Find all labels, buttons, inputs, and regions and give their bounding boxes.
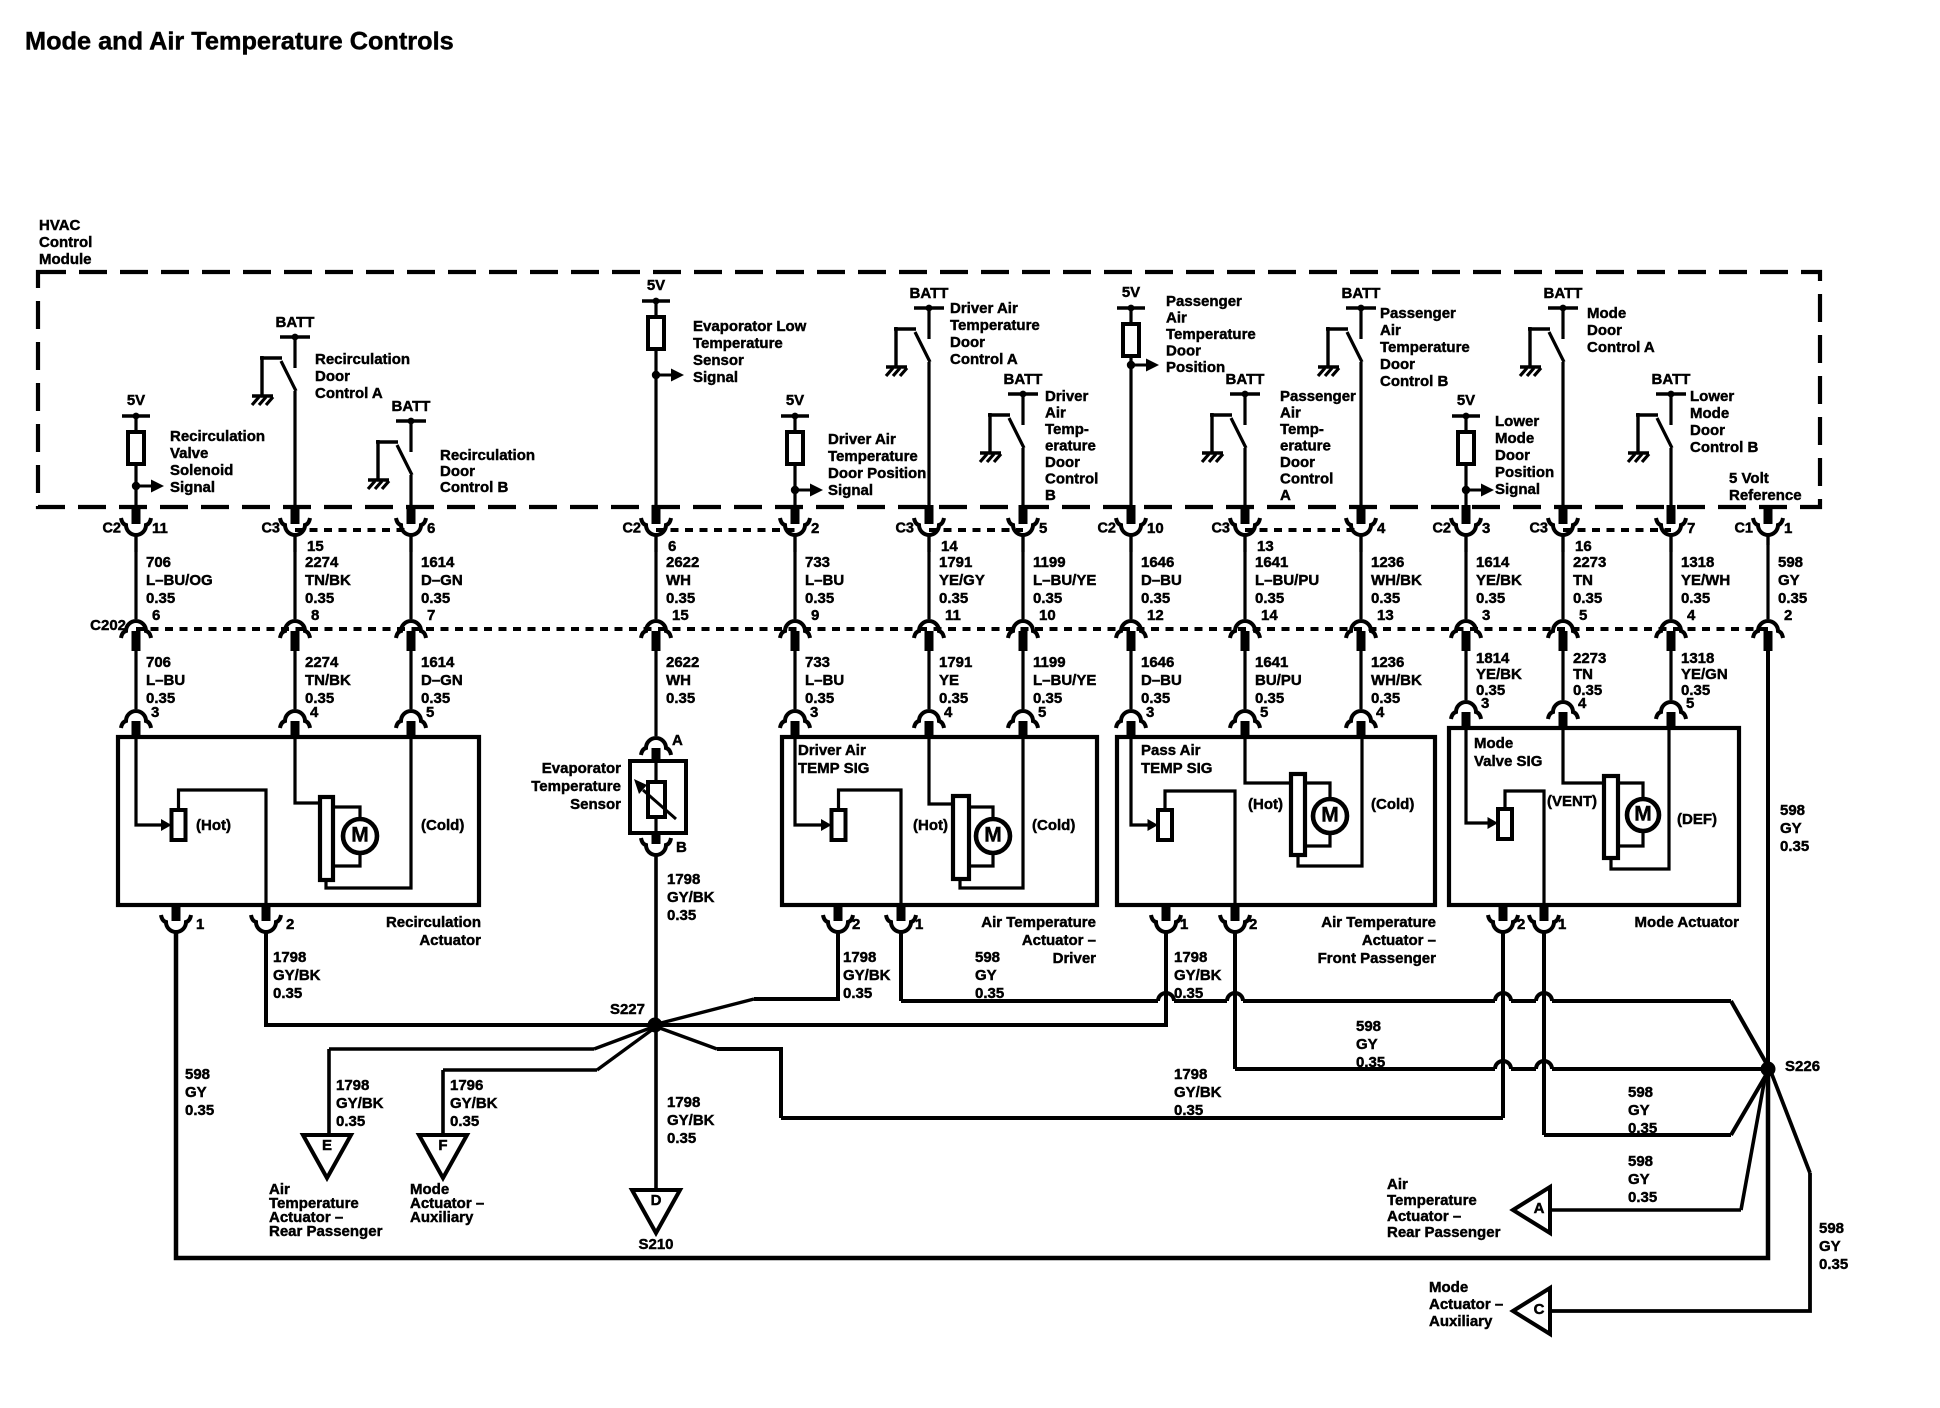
- svg-text:Control A: Control A: [1587, 339, 1655, 356]
- wire 1236 WH/BK (module to C202): [1359, 536, 1362, 619]
- svg-text:598: 598: [1356, 1018, 1381, 1035]
- svg-text:C1: C1: [1734, 521, 1753, 537]
- svg-text:Evaporator: Evaporator: [542, 760, 621, 777]
- switch blade - Passenger Air Temperature Door Control A: [1231, 418, 1246, 448]
- triangle connector A: [1513, 1187, 1550, 1233]
- svg-text:BATT: BATT: [1004, 371, 1043, 388]
- svg-text:1798: 1798: [667, 871, 700, 888]
- svg-text:Passenger: Passenger: [1166, 293, 1242, 310]
- thermistor arrow: [643, 790, 676, 819]
- svg-text:GY/BK: GY/BK: [667, 889, 715, 906]
- ground - Driver Air Temperature Door Control B: [980, 451, 1001, 454]
- svg-text:10: 10: [1147, 520, 1164, 537]
- connector pin C2 10 (module row): [1127, 505, 1136, 524]
- svg-text:1614: 1614: [1476, 554, 1510, 571]
- wire - BATT feed - Lower Mode Door Control B: [1669, 394, 1672, 425]
- actuator connector pin 4: [1548, 702, 1578, 719]
- svg-text:2: 2: [811, 520, 819, 537]
- C202 pin 4: [1656, 621, 1686, 638]
- svg-text:0.35: 0.35: [146, 590, 175, 607]
- wire 2273 TN (module to C202): [1561, 536, 1564, 619]
- svg-text:BATT: BATT: [392, 398, 431, 415]
- resistor R4 - passenger door position pullup: [1123, 324, 1139, 356]
- pass motor M: [1313, 799, 1347, 833]
- svg-text:YE: YE: [939, 672, 959, 689]
- connector pin C3 16 (module row): [1559, 505, 1568, 524]
- actuator connector pin 3: [780, 711, 810, 728]
- connector pin 4 (module row): [1357, 505, 1366, 524]
- wire - BATT feed - Passenger Air Temperature Door Control B: [1359, 308, 1362, 339]
- svg-text:Reference: Reference: [1729, 487, 1802, 504]
- svg-text:D–BU: D–BU: [1141, 672, 1182, 689]
- actuator connector pin 5: [1656, 702, 1686, 719]
- svg-text:D: D: [651, 1192, 662, 1209]
- svg-text:0.35: 0.35: [336, 1113, 365, 1130]
- signal tap arrow - Passenger Air Temperature Door Position: [1127, 361, 1135, 369]
- svg-text:C3: C3: [1211, 521, 1230, 537]
- svg-text:YE/BK: YE/BK: [1476, 666, 1522, 683]
- svg-text:598: 598: [975, 949, 1000, 966]
- svg-text:598: 598: [185, 1066, 210, 1083]
- svg-text:Temperature: Temperature: [828, 448, 918, 465]
- svg-text:Door: Door: [1690, 422, 1725, 439]
- svg-text:Door: Door: [950, 334, 985, 351]
- svg-text:WH: WH: [666, 672, 691, 689]
- svg-text:Temperature: Temperature: [531, 778, 621, 795]
- resistor R1 - recirculation valve solenoid pullup: [128, 432, 144, 464]
- svg-text:3: 3: [1482, 607, 1490, 624]
- wire 1614 D–GN (C202 to actuator pin 5): [409, 651, 412, 709]
- wire - signal node to connector C2-6: [654, 375, 657, 507]
- svg-text:14: 14: [1261, 607, 1278, 624]
- svg-text:Control A: Control A: [315, 385, 383, 402]
- switch blade - Passenger Air Temperature Door Control B: [1347, 332, 1362, 362]
- svg-text:1: 1: [1180, 916, 1188, 933]
- svg-text:Temperature: Temperature: [1387, 1192, 1477, 1209]
- svg-text:L–BU/YE: L–BU/YE: [1033, 672, 1096, 689]
- svg-text:Valve SIG: Valve SIG: [1474, 753, 1542, 770]
- wire - 5V to resistor R2: [654, 301, 657, 317]
- svg-text:GY/BK: GY/BK: [273, 967, 321, 984]
- wire 706 L–BU/OG (module to C202): [134, 536, 137, 619]
- connector pin 6 (module row): [407, 505, 416, 524]
- svg-text:7: 7: [1687, 520, 1695, 537]
- svg-text:Control: Control: [39, 234, 92, 251]
- triangle connector E: [303, 1135, 351, 1178]
- svg-text:0.35: 0.35: [1033, 590, 1062, 607]
- C202 pin 12: [1116, 621, 1146, 638]
- svg-text:0.35: 0.35: [450, 1113, 479, 1130]
- svg-text:10: 10: [1039, 607, 1056, 624]
- svg-text:(Cold): (Cold): [1032, 817, 1075, 834]
- svg-text:Temperature: Temperature: [693, 335, 783, 352]
- svg-text:2622: 2622: [666, 654, 699, 671]
- svg-text:L–BU: L–BU: [805, 572, 844, 589]
- svg-text:Mode: Mode: [1587, 305, 1626, 322]
- C202 pin 14: [1230, 621, 1260, 638]
- svg-text:1791: 1791: [939, 554, 972, 571]
- svg-text:B: B: [1045, 487, 1056, 504]
- svg-text:1791: 1791: [939, 654, 972, 671]
- wire - switch output - Driver Air Temperature Door Control A: [927, 362, 930, 507]
- svg-text:5: 5: [1038, 704, 1046, 721]
- driver motor M: [976, 819, 1010, 853]
- wire 1791 YE/GY (module to C202): [927, 536, 930, 619]
- svg-text:E: E: [322, 1137, 332, 1154]
- svg-text:Actuator –: Actuator –: [1022, 932, 1096, 949]
- svg-text:C202: C202: [90, 617, 126, 634]
- svg-text:(Hot): (Hot): [196, 817, 231, 834]
- svg-text:0.35: 0.35: [667, 907, 696, 924]
- svg-text:1614: 1614: [421, 554, 455, 571]
- wire - 5V to resistor R5: [1464, 416, 1467, 432]
- svg-text:0.35: 0.35: [1819, 1256, 1848, 1273]
- svg-text:2: 2: [1249, 916, 1257, 933]
- Passenger actuator pins 1 and 2: [1162, 903, 1171, 921]
- svg-text:A: A: [1534, 1200, 1545, 1217]
- svg-text:L–BU/YE: L–BU/YE: [1033, 572, 1096, 589]
- svg-text:GY/BK: GY/BK: [1174, 1084, 1222, 1101]
- svg-text:16: 16: [1575, 538, 1592, 555]
- wire 598 GY (C202 pin 2 down to S226): [1766, 651, 1770, 1069]
- HVAC Control Module dashed box: [38, 272, 1820, 507]
- svg-text:BATT: BATT: [276, 314, 315, 331]
- wire - BATT feed - Mode Door Control A: [1561, 308, 1564, 339]
- svg-text:TN/BK: TN/BK: [305, 572, 351, 589]
- svg-text:WH/BK: WH/BK: [1371, 572, 1422, 589]
- svg-text:Air: Air: [1045, 405, 1066, 422]
- svg-text:1318: 1318: [1681, 554, 1714, 571]
- splice S227: [648, 1018, 663, 1033]
- svg-text:C2: C2: [1097, 521, 1116, 537]
- signal tap arrow - Driver Air Temperature Door Position Signal: [791, 486, 799, 494]
- svg-text:4: 4: [1687, 607, 1696, 624]
- svg-text:Driver: Driver: [1053, 950, 1097, 967]
- svg-text:GY/BK: GY/BK: [450, 1095, 498, 1112]
- svg-text:S227: S227: [610, 1001, 645, 1018]
- svg-text:GY: GY: [975, 967, 997, 984]
- svg-text:C3: C3: [895, 521, 914, 537]
- svg-text:0.35: 0.35: [1476, 590, 1505, 607]
- svg-text:0.35: 0.35: [1628, 1120, 1657, 1137]
- svg-text:Solenoid: Solenoid: [170, 462, 233, 479]
- svg-text:TN: TN: [1573, 666, 1593, 683]
- svg-text:Air Temperature: Air Temperature: [1321, 914, 1436, 931]
- svg-text:1646: 1646: [1141, 554, 1174, 571]
- svg-text:Door: Door: [1380, 356, 1415, 373]
- svg-text:1199: 1199: [1033, 654, 1066, 671]
- svg-text:1798: 1798: [273, 949, 306, 966]
- svg-text:GY/BK: GY/BK: [336, 1095, 384, 1112]
- wire 1199 L–BU/YE (C202 to actuator pin 5): [1021, 651, 1024, 709]
- svg-text:Temperature: Temperature: [1166, 326, 1256, 343]
- wire 1798 GY/BK (pass pin 1 to S227): [662, 931, 1166, 1025]
- svg-text:GY: GY: [1819, 1238, 1841, 1255]
- svg-text:0.35: 0.35: [273, 985, 302, 1002]
- svg-text:3: 3: [810, 704, 818, 721]
- svg-text:1814: 1814: [1476, 650, 1510, 667]
- driver motor links: [969, 807, 993, 820]
- svg-text:GY: GY: [1780, 820, 1802, 837]
- mode pot wiper to pin 1: [1505, 791, 1544, 903]
- svg-text:1: 1: [1558, 916, 1566, 933]
- svg-text:L–BU: L–BU: [805, 672, 844, 689]
- svg-text:15: 15: [307, 538, 324, 555]
- svg-text:Actuator –: Actuator –: [1362, 932, 1436, 949]
- actuator connector pin 5: [1230, 711, 1260, 728]
- pass motor wire from pin 5: [1245, 739, 1289, 783]
- svg-text:Signal: Signal: [170, 479, 215, 496]
- svg-text:0.35: 0.35: [1141, 590, 1170, 607]
- svg-text:Mode: Mode: [1495, 430, 1534, 447]
- svg-text:Rear Passenger: Rear Passenger: [269, 1223, 383, 1240]
- svg-text:1318: 1318: [1681, 650, 1714, 667]
- svg-text:0.35: 0.35: [666, 690, 695, 707]
- svg-text:Front Passenger: Front Passenger: [1318, 950, 1437, 967]
- svg-text:1236: 1236: [1371, 654, 1404, 671]
- signal tap arrow - Evaporator Low Temperature Sensor Signal: [652, 371, 660, 379]
- svg-text:3: 3: [151, 704, 159, 721]
- svg-text:1: 1: [196, 916, 204, 933]
- ground - Recirculation Door Control A: [252, 394, 273, 397]
- triangle connector D: [632, 1190, 680, 1233]
- svg-text:Temperature: Temperature: [950, 317, 1040, 334]
- Evaporator Temperature Sensor box: [630, 761, 686, 833]
- wire 598 GY (S226 to C - Mode Actuator Auxiliary): [1771, 1072, 1810, 1173]
- C202 pin 9: [780, 621, 810, 638]
- switch driver - Passenger Air Temperature Door Control B: [1326, 327, 1348, 330]
- svg-text:5V: 5V: [647, 277, 665, 294]
- svg-text:B: B: [676, 839, 687, 856]
- driver motor armature: [953, 796, 969, 879]
- Recirculation Actuator pins 1 and 2: [172, 903, 181, 921]
- wire 1814 YE/BK (C202 to actuator pin 3): [1464, 651, 1467, 700]
- svg-text:2: 2: [852, 916, 860, 933]
- actuator connector pin 3: [1116, 711, 1146, 728]
- wire 1798 GY/BK (driver pin 2 to S227): [754, 931, 838, 999]
- svg-text:0.35: 0.35: [1174, 1102, 1203, 1119]
- svg-text:598: 598: [1628, 1084, 1653, 1101]
- wire - switch output - Recirculation Door Control A: [293, 391, 296, 507]
- svg-text:Valve: Valve: [170, 445, 208, 462]
- svg-text:D–BU: D–BU: [1141, 572, 1182, 589]
- svg-text:3: 3: [1146, 704, 1154, 721]
- pass pot wiper to pin 2: [1165, 791, 1235, 903]
- svg-text:0.35: 0.35: [1681, 590, 1710, 607]
- connector pin 2 (module row): [791, 505, 800, 524]
- svg-text:BU/PU: BU/PU: [1255, 672, 1302, 689]
- wire 1798 GY/BK (S227 down to D / S210): [654, 1025, 658, 1190]
- mode motor wire from pin 4: [1563, 730, 1602, 783]
- wire 598 GY (S226 to A - Air Temperature Actuator Rear Passenger): [1741, 1072, 1766, 1210]
- svg-text:(Hot): (Hot): [1248, 796, 1283, 813]
- connector pin C3 14 (module row): [925, 505, 934, 524]
- svg-text:GY/BK: GY/BK: [667, 1112, 715, 1129]
- wire 598 GY (recirc pin 1 to S226 via bottom run): [176, 931, 1768, 1258]
- svg-text:Air: Air: [1387, 1176, 1408, 1193]
- wire - resistor to signal node: [1464, 464, 1467, 490]
- svg-text:Control B: Control B: [1380, 373, 1448, 390]
- svg-text:M: M: [1634, 803, 1652, 826]
- svg-text:Control: Control: [1045, 471, 1098, 488]
- svg-text:WH/BK: WH/BK: [1371, 672, 1422, 689]
- connector pin 7 (module row): [1667, 505, 1676, 524]
- svg-text:Air: Air: [1166, 310, 1187, 327]
- C202 inline connector row: [136, 627, 1768, 631]
- svg-text:Air Temperature: Air Temperature: [981, 914, 1096, 931]
- wire 1798 GY/BK (mode pin 2 to S227): [1501, 931, 1505, 1118]
- svg-text:Evaporator Low: Evaporator Low: [693, 318, 807, 335]
- Air Temperature Actuator - Driver box: [782, 737, 1097, 905]
- svg-text:1199: 1199: [1033, 554, 1066, 571]
- connector pin C2 3 (module row): [1462, 505, 1471, 524]
- svg-text:Signal: Signal: [693, 369, 738, 386]
- svg-text:Mode: Mode: [1429, 1279, 1468, 1296]
- recirc potentiometer: [172, 810, 186, 840]
- svg-text:0.35: 0.35: [1371, 590, 1400, 607]
- svg-text:0.35: 0.35: [666, 590, 695, 607]
- svg-text:11: 11: [945, 607, 961, 624]
- svg-text:Driver Air: Driver Air: [950, 300, 1018, 317]
- svg-text:YE/GY: YE/GY: [939, 572, 985, 589]
- svg-text:0.35: 0.35: [1778, 590, 1807, 607]
- C202 pin 3: [1451, 621, 1481, 638]
- wire 2622 WH (module to C202): [654, 536, 657, 619]
- svg-text:C2: C2: [1432, 521, 1451, 537]
- Recirculation Actuator box: [118, 737, 479, 905]
- svg-text:Mode: Mode: [1690, 405, 1729, 422]
- svg-text:Module: Module: [39, 251, 92, 268]
- svg-text:2: 2: [1784, 607, 1792, 624]
- recirc motor links: [333, 807, 360, 820]
- wire 598 GY (mode pin 1 to S226): [1542, 931, 1546, 1135]
- svg-text:5: 5: [426, 704, 434, 721]
- driver pot feed wire: [795, 739, 821, 825]
- svg-text:0.35: 0.35: [843, 985, 872, 1002]
- svg-text:5: 5: [1039, 520, 1047, 537]
- svg-text:Door: Door: [1587, 322, 1622, 339]
- svg-text:GY: GY: [185, 1084, 207, 1101]
- wire 1798 GY/BK (sensor B to S227): [654, 854, 658, 1025]
- svg-text:Actuator –: Actuator –: [1387, 1208, 1461, 1225]
- wire 1641 BU/PU (C202 to actuator pin 5): [1243, 651, 1246, 709]
- wire - signal node to connector C2-10: [1129, 365, 1132, 507]
- svg-text:D–GN: D–GN: [421, 572, 463, 589]
- connector pin C3 13 (module row): [1241, 505, 1250, 524]
- svg-text:GY: GY: [1628, 1102, 1650, 1119]
- signal tap arrow - Lower Mode Door Position Signal: [1462, 486, 1470, 494]
- svg-text:Sensor: Sensor: [570, 796, 621, 813]
- svg-text:3: 3: [1481, 695, 1489, 712]
- ground - Mode Door Control A: [1520, 365, 1541, 368]
- svg-text:A: A: [1280, 487, 1291, 504]
- svg-text:(DEF): (DEF): [1677, 811, 1717, 828]
- recirc motor M: [343, 819, 377, 853]
- mode potentiometer: [1498, 809, 1512, 839]
- recirc motor wire from pin 4: [295, 739, 318, 803]
- svg-text:2622: 2622: [666, 554, 699, 571]
- svg-text:Lower: Lower: [1690, 388, 1734, 405]
- svg-text:0.35: 0.35: [305, 590, 334, 607]
- connector pin C1 1 (module row): [1764, 505, 1773, 524]
- mode motor armature: [1604, 776, 1618, 858]
- wire 1236 WH/BK (C202 to actuator pin 4): [1359, 651, 1362, 709]
- wire 598 GY (pass pin 2 to S226): [1233, 931, 1237, 1069]
- mode pot feed wire: [1466, 730, 1488, 823]
- connector pin C2 6 (module row): [652, 505, 661, 524]
- svg-text:Mode and Air Temperature Contr: Mode and Air Temperature Controls: [25, 28, 454, 56]
- svg-text:F: F: [438, 1137, 447, 1154]
- wire - BATT feed - Passenger Air Temperature Door Control A: [1243, 394, 1246, 425]
- svg-text:Driver Air: Driver Air: [828, 431, 896, 448]
- C202 pin 11: [914, 621, 944, 638]
- svg-text:(Hot): (Hot): [913, 817, 948, 834]
- svg-text:13: 13: [1257, 538, 1274, 555]
- wire 1641 L–BU/PU (module to C202): [1243, 536, 1246, 619]
- mode motor links: [1618, 783, 1643, 800]
- actuator connector pin 4: [914, 711, 944, 728]
- svg-text:C2: C2: [102, 521, 121, 537]
- wire - 5V to resistor R3: [793, 416, 796, 432]
- svg-text:5: 5: [1260, 704, 1268, 721]
- wire 1646 D–BU (module to C202): [1129, 536, 1132, 619]
- svg-text:706: 706: [146, 654, 171, 671]
- svg-text:Position: Position: [1166, 359, 1225, 376]
- wire - switch output - Lower Mode Door Control B: [1669, 448, 1672, 507]
- Mode actuator pins 2 and 1: [1499, 903, 1508, 921]
- ground - Recirculation Door Control B: [368, 478, 389, 481]
- svg-text:2274: 2274: [305, 654, 339, 671]
- svg-text:Control B: Control B: [440, 479, 508, 496]
- svg-text:WH: WH: [666, 572, 691, 589]
- svg-text:0.35: 0.35: [185, 1102, 214, 1119]
- wire - 5V to resistor R1: [134, 416, 137, 432]
- svg-text:Mode: Mode: [1474, 735, 1513, 752]
- switch driver - Lower Mode Door Control B: [1636, 413, 1658, 416]
- connector pin C3 15 (module row): [291, 505, 300, 524]
- Air Temperature Actuator - Front Passenger box: [1117, 737, 1435, 905]
- svg-text:S226: S226: [1785, 1058, 1820, 1075]
- C202 pin 7: [396, 621, 426, 638]
- pass motor armature: [1291, 774, 1305, 855]
- svg-text:0.35: 0.35: [1356, 1054, 1385, 1071]
- svg-text:C2: C2: [622, 521, 641, 537]
- triangle connector C: [1513, 1288, 1550, 1334]
- svg-text:S210: S210: [638, 1236, 673, 1253]
- ground - Passenger Air Temperature Door Control A: [1202, 451, 1223, 454]
- svg-text:1614: 1614: [421, 654, 455, 671]
- wire - switch output - Driver Air Temperature Door Control B: [1021, 448, 1024, 507]
- signal tap arrow - Recirculation Valve Solenoid Signal: [132, 482, 140, 490]
- wire - resistor to signal node: [793, 464, 796, 490]
- svg-text:Actuator –: Actuator –: [1429, 1296, 1503, 1313]
- svg-text:Lower: Lower: [1495, 413, 1539, 430]
- svg-text:Door Position: Door Position: [828, 465, 926, 482]
- svg-text:YE/WH: YE/WH: [1681, 572, 1730, 589]
- wire 1798 GY/BK (S227 to E - Air Temperature Actuator Rear Passenger): [594, 1027, 653, 1049]
- svg-text:2: 2: [286, 916, 294, 933]
- svg-text:4: 4: [944, 704, 953, 721]
- svg-text:1236: 1236: [1371, 554, 1404, 571]
- svg-text:M: M: [984, 824, 1002, 847]
- driver motor wire from pin 4: [929, 739, 951, 804]
- svg-text:2273: 2273: [1573, 650, 1606, 667]
- actuator connector pin 5: [1008, 711, 1038, 728]
- svg-text:Control A: Control A: [950, 351, 1018, 368]
- svg-text:Passenger: Passenger: [1280, 388, 1356, 405]
- svg-text:4: 4: [310, 704, 319, 721]
- svg-text:Passenger: Passenger: [1380, 305, 1456, 322]
